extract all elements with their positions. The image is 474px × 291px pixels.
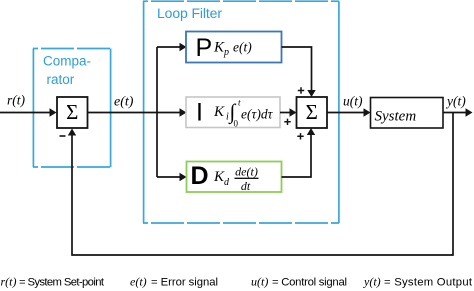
svg-text:p: p bbox=[223, 47, 229, 58]
wire D output to S2 bbox=[282, 133, 312, 177]
summing junction S1 (comparator) bbox=[57, 97, 88, 128]
P block bbox=[186, 32, 282, 63]
svg-text:e(t): e(t) bbox=[233, 40, 252, 55]
svg-text:r(t): r(t) bbox=[7, 93, 26, 108]
svg-text:= System Set-point: = System Set-point bbox=[19, 277, 105, 289]
plus sign top input S2 bbox=[298, 87, 304, 93]
svg-text:u(t): u(t) bbox=[343, 94, 363, 109]
svg-text:r(t): r(t) bbox=[1, 275, 17, 289]
svg-text:e(t): e(t) bbox=[130, 275, 147, 289]
svg-text:e(τ)dτ: e(τ)dτ bbox=[241, 107, 274, 122]
plus sign bottom input S2 bbox=[297, 133, 303, 139]
wire I output to S2 bbox=[280, 112, 291, 114]
svg-text:de(t): de(t) bbox=[235, 165, 258, 179]
svg-text:System: System bbox=[375, 109, 417, 125]
svg-text:u(t): u(t) bbox=[251, 275, 268, 289]
wire y(t) output bbox=[443, 112, 467, 114]
wire e(t) from S1 to branch and I block bbox=[88, 112, 182, 114]
wire branch to P bbox=[157, 46, 181, 48]
svg-text:D: D bbox=[191, 162, 209, 190]
D block bbox=[187, 162, 282, 193]
plus sign left input S2 bbox=[284, 119, 290, 125]
svg-text:I: I bbox=[196, 99, 203, 127]
system block bbox=[371, 98, 444, 129]
svg-text:rator: rator bbox=[47, 72, 75, 87]
svg-text:= System Output: = System Output bbox=[384, 277, 473, 289]
svg-text:= Control signal: = Control signal bbox=[272, 277, 347, 289]
wire u(t) from S2 to system bbox=[327, 112, 365, 114]
summing junction S2 bbox=[297, 97, 328, 128]
comparator dashed box bbox=[33, 49, 111, 168]
svg-text:Compa-: Compa- bbox=[43, 54, 91, 69]
wire branch to D bbox=[157, 176, 181, 178]
svg-text:dt: dt bbox=[241, 179, 251, 193]
svg-text:Loop Filter: Loop Filter bbox=[157, 5, 222, 21]
svg-text:Σ: Σ bbox=[306, 100, 318, 124]
wire P output to S2 bbox=[282, 47, 312, 92]
svg-text:P: P bbox=[196, 34, 213, 62]
wire r(t) input bbox=[0, 112, 51, 114]
svg-text:Σ: Σ bbox=[66, 100, 78, 124]
loop filter dashed box bbox=[143, 1, 339, 223]
svg-text:y(t): y(t) bbox=[445, 94, 466, 109]
svg-text:0: 0 bbox=[234, 119, 239, 129]
I block bbox=[186, 97, 280, 128]
svg-text:e(t): e(t) bbox=[114, 95, 134, 110]
wire feedback path bbox=[72, 113, 453, 256]
svg-text:K: K bbox=[213, 104, 225, 120]
svg-text:y(t): y(t) bbox=[363, 275, 381, 289]
svg-text:= Error signal: = Error signal bbox=[151, 277, 218, 289]
minus sign at S1 bbox=[60, 135, 66, 137]
wire branch vertical bbox=[156, 47, 158, 177]
